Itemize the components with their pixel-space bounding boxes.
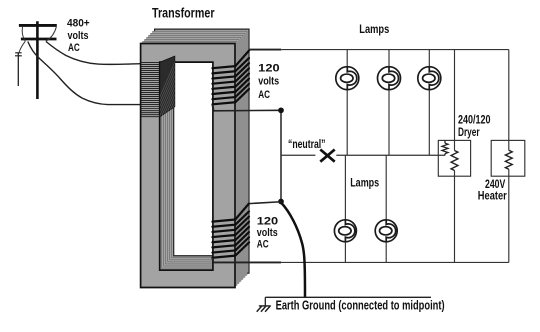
svg-text:Transformer: Transformer xyxy=(152,6,215,21)
svg-text:Earth Ground (connected to mid: Earth Ground (connected to midpoint) xyxy=(276,298,445,313)
midpoint column wire xyxy=(280,110,282,201)
transformer core laminated sheets xyxy=(141,29,249,287)
svg-text:AC: AC xyxy=(257,239,269,251)
bottom rail wire xyxy=(213,258,509,263)
svg-text:240/120: 240/120 xyxy=(458,115,491,127)
primary winding front turns xyxy=(140,62,160,116)
label 240/120 Dryer xyxy=(458,115,491,140)
heater branch wire xyxy=(508,50,510,263)
lamp column 3 wire xyxy=(428,50,430,156)
utility pole xyxy=(36,21,39,99)
svg-text:AC: AC xyxy=(258,89,270,101)
lamp column 1 upper wire xyxy=(346,50,348,156)
lamp L2 xyxy=(378,67,401,90)
lamp column 1 lower wire xyxy=(344,155,346,262)
heater resistor xyxy=(505,150,512,169)
lamp L3 xyxy=(418,67,441,90)
earth ground rail xyxy=(265,297,431,306)
heater box xyxy=(491,140,525,176)
label 120 volts AC upper xyxy=(258,62,279,101)
svg-text:240V: 240V xyxy=(485,179,506,191)
dryer resistor 240V xyxy=(451,151,458,171)
dryer box xyxy=(438,140,470,176)
svg-text:AC: AC xyxy=(68,42,80,54)
junction dot upper xyxy=(278,107,284,113)
svg-text:120: 120 xyxy=(258,62,279,74)
svg-text:Lamps: Lamps xyxy=(350,175,379,189)
wire sag left crossarms xyxy=(22,27,25,41)
junction dot lower xyxy=(278,199,284,205)
neutral wire right segment xyxy=(336,154,445,156)
neutral wire left segment xyxy=(281,154,315,156)
insulator stub xyxy=(15,53,22,86)
neutral break X xyxy=(320,150,334,162)
wire sag right crossarms xyxy=(46,27,57,41)
dryer resistor 120V xyxy=(442,140,448,155)
pole crossarm lower xyxy=(21,38,57,41)
wire B pole to primary xyxy=(28,42,141,105)
lamp L1 xyxy=(336,67,359,90)
svg-text:volts: volts xyxy=(257,227,278,239)
pole crossarm top xyxy=(19,24,57,27)
label 480+ volts AC xyxy=(67,18,90,55)
wire sag to insulator xyxy=(19,41,25,52)
lamp L4 xyxy=(334,220,356,242)
svg-text:120: 120 xyxy=(257,215,278,227)
svg-text:Lamps: Lamps xyxy=(359,22,389,36)
secondary winding lower 120V xyxy=(212,204,249,258)
wire A pole to primary xyxy=(46,42,141,65)
lower secondary top wire xyxy=(249,202,281,204)
svg-text:480+: 480+ xyxy=(67,18,90,30)
lamp column 2 lower wire xyxy=(385,155,387,262)
dryer branch wire xyxy=(454,50,456,263)
earth ground symbol xyxy=(257,306,271,312)
earth ground curve wire xyxy=(281,203,305,298)
label 240V Heater xyxy=(478,179,507,203)
svg-text:Dryer: Dryer xyxy=(458,127,480,139)
svg-text:volts: volts xyxy=(258,76,279,88)
secondary winding upper 120V xyxy=(212,51,249,105)
primary winding side (hatched) xyxy=(150,50,230,120)
label 120 volts AC lower xyxy=(257,215,278,250)
lamp L5 xyxy=(375,220,397,242)
svg-text:“neutral”: “neutral” xyxy=(288,139,326,151)
svg-text:volts: volts xyxy=(68,30,89,42)
top rail wire xyxy=(249,49,509,51)
lamp column 2 upper wire xyxy=(388,50,390,156)
upper secondary bottom wire xyxy=(213,105,282,111)
svg-text:Heater: Heater xyxy=(478,190,507,202)
